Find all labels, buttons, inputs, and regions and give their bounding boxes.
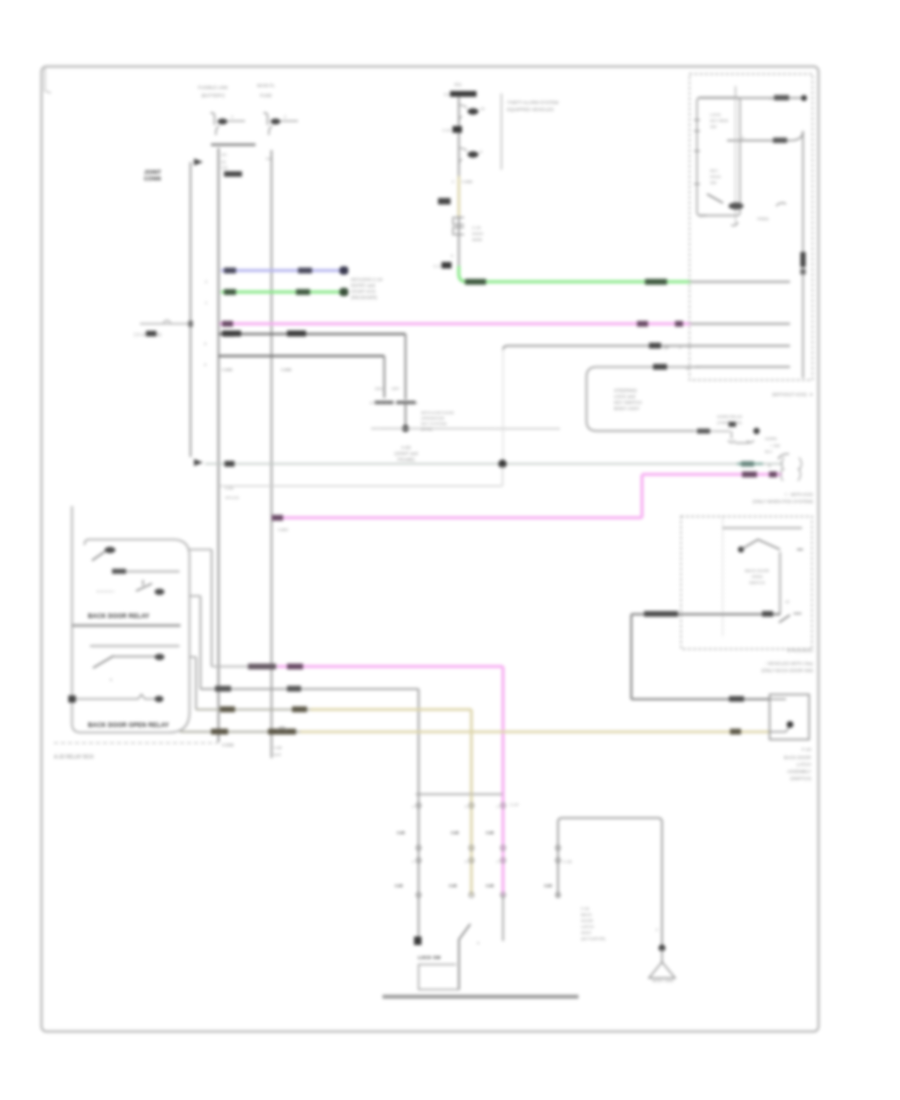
U1 inner box (key cylinder) [697, 98, 740, 216]
svg-text:16: 16 [480, 106, 485, 111]
dark wire W1 [204, 331, 406, 400]
bracket note line [500, 93, 502, 169]
svg-text:SW: SW [710, 124, 717, 129]
U1 inner box text block 2 [710, 168, 721, 185]
trunk E wire [271, 150, 273, 758]
svg-text:LATCH: LATCH [797, 762, 811, 767]
pink wire lower (y666.5) [212, 664, 503, 670]
green wire B labels [465, 279, 667, 285]
light wire across J2 [371, 428, 560, 430]
svg-text:0.5G: 0.5G [225, 486, 234, 491]
connector pin row 3 [412, 858, 505, 864]
svg-text:ENTRY and: ENTRY and [351, 283, 375, 288]
svg-text:: THEFT-ALARM SYSTEM: : THEFT-ALARM SYSTEM [505, 100, 559, 105]
relay K1 coil bar [112, 569, 180, 574]
wire column mid tan [470, 794, 473, 895]
dark patch near jog [729, 422, 737, 427]
U3 internals [770, 699, 790, 732]
svg-text:BACK DOOR OPEN RELAY: BACK DOOR OPEN RELAY [88, 723, 169, 729]
svg-text:OFF: OFF [392, 386, 401, 391]
svg-text:(1): (1) [221, 159, 227, 164]
relay K2 switch [93, 654, 165, 682]
svg-text:(BATTERY): (BATTERY) [201, 93, 225, 98]
svg-text:JOINT: JOINT [144, 170, 162, 176]
U3 label text [784, 747, 812, 781]
wire W7 (y614) [631, 611, 780, 617]
pink wire mid (y517.8) [272, 515, 643, 532]
U1 vertical wire code labels [800, 252, 805, 275]
svg-text:SWITCH: SWITCH [749, 580, 765, 585]
svg-text:(ACTUATOR): (ACTUATOR) [581, 936, 606, 941]
svg-text:FRAME): FRAME) [397, 457, 415, 462]
gray vertical (x418.6) [418, 689, 420, 795]
stub K2 contact out [190, 656, 197, 658]
svg-text:KEYLESS C-24: KEYLESS C-24 [351, 277, 383, 282]
svg-text:0.85B: 0.85B [222, 367, 233, 372]
fuse F2 header label [257, 83, 275, 98]
U2 wire row [723, 527, 802, 529]
svg-text:HORN: HORN [765, 436, 777, 441]
svg-text:6: 6 [465, 805, 467, 809]
svg-text:0.85B: 0.85B [281, 367, 292, 372]
svg-text:B-R: B-R [274, 752, 281, 757]
column unit box [587, 367, 701, 431]
relay box divider [72, 624, 181, 627]
stub K1 contact out [190, 549, 212, 551]
svg-text:OFF: OFF [699, 213, 708, 218]
trunk A bottom arrow [194, 459, 203, 466]
vertical wire V2 [200, 596, 202, 689]
svg-text:A-6X: A-6X [401, 445, 411, 450]
wire W3 (y346) [503, 343, 790, 350]
fuse F2 [264, 113, 299, 135]
wire code row 1 [397, 830, 495, 835]
bus bar [211, 143, 256, 146]
trunk A wire [190, 162, 192, 457]
svg-text:BODY ASSY: BODY ASSY [614, 406, 640, 411]
joint connector bold label [144, 170, 162, 183]
junction dot J4 [498, 460, 506, 468]
svg-text:TO: TO [444, 92, 449, 97]
text right of box lower [717, 414, 743, 425]
fuse F4 [459, 148, 483, 164]
connector pin row 4 [416, 893, 505, 898]
green wire B path [459, 266, 691, 282]
latch box U3 [770, 695, 810, 740]
connector C-105 stub [134, 320, 191, 337]
svg-text:FUSE: FUSE [260, 93, 272, 98]
U1 switch S2 [699, 98, 744, 226]
fuse F1 [211, 113, 246, 135]
junction at C-105 stub [188, 321, 193, 327]
svg-text:0.85: 0.85 [451, 830, 460, 835]
svg-text:A-30 RELAY BOX: A-30 RELAY BOX [54, 755, 94, 761]
U2 switch S3 [738, 540, 803, 553]
svg-text:F-09: F-09 [581, 906, 590, 911]
svg-text:0.85V: 0.85V [278, 527, 289, 532]
ignition feed wire tan segment [457, 176, 460, 216]
note text above latch box [761, 661, 813, 673]
junction dot J2 [402, 425, 409, 432]
U2 switch output wire [779, 552, 781, 614]
inline connector C1 [453, 218, 483, 243]
ignition feed wire [458, 97, 460, 269]
svg-text:BACK DOOR: BACK DOOR [784, 755, 812, 760]
note text right middle [753, 492, 814, 504]
J2 callout text [421, 410, 454, 432]
svg-text:0.85: 0.85 [397, 830, 406, 835]
wire code label row [452, 179, 473, 184]
pink vertical (x642) [641, 474, 644, 517]
green wire B inside box (gray) [691, 281, 790, 283]
svg-text:3-R: 3-R [221, 165, 228, 170]
svg-text:ETACS-ECU: ETACS-ECU [787, 648, 813, 653]
svg-text:LATCH: LATCH [581, 924, 594, 929]
svg-text:0.85: 0.85 [544, 883, 553, 888]
dark wire W2 [204, 356, 384, 398]
svg-text:4: 4 [412, 805, 414, 809]
green wire A [221, 289, 345, 295]
switch S4 [459, 924, 480, 990]
dashed continuation line [54, 742, 219, 744]
U1 inner box text block 1 [710, 112, 728, 129]
svg-text:ON1: ON1 [375, 386, 384, 391]
U1 small contact right [757, 203, 786, 221]
ground G1 [649, 948, 675, 983]
svg-text:ON(N): ON(N) [757, 216, 769, 221]
pink wire inside box (gray) [691, 323, 790, 325]
svg-text:ASSEMBLY: ASSEMBLY [787, 769, 811, 774]
connector C2 blob [434, 262, 452, 269]
light wire W5 (y431) [694, 430, 730, 432]
connector pin row 2 [416, 846, 505, 851]
stub K1 coil out [190, 595, 201, 597]
svg-text:BACK DOOR: BACK DOOR [745, 568, 769, 573]
svg-text:(ONLY WHEN POS SYSTEM): (ONLY WHEN POS SYSTEM) [753, 499, 814, 504]
U1 wire row 2 [727, 135, 790, 143]
svg-text:(ONLY BACK DOOR SW): (ONLY BACK DOOR SW) [761, 668, 813, 673]
U1 junction dot [801, 95, 807, 101]
wire code row 2 [395, 883, 495, 888]
BR junction dot [659, 945, 666, 952]
U1 wire row 1 [699, 86, 804, 101]
U2 text block [745, 568, 769, 585]
trunk A top arrow [194, 159, 203, 166]
svg-text:(RECEIVER): (RECEIVER) [351, 295, 378, 300]
S4 bracket [419, 965, 459, 990]
fuse F1 header label [198, 85, 228, 98]
svg-text:4: 4 [412, 860, 414, 864]
svg-text:BACK: BACK [581, 912, 592, 917]
blue wire end arrow [340, 266, 349, 274]
svg-text:LOCK SW: LOCK SW [418, 955, 441, 960]
bottom connector bar [416, 793, 503, 795]
svg-text:START SYS: START SYS [351, 289, 376, 294]
svg-text:C-3: C-3 [434, 264, 441, 269]
svg-text:2: 2 [497, 860, 499, 864]
svg-text:(WITHOUT KOS) ∗: (WITHOUT KOS) ∗ [772, 392, 813, 397]
svg-text:C-29: C-29 [472, 225, 481, 230]
svg-text:C-39: C-39 [563, 859, 572, 864]
svg-text:LOCK: LOCK [710, 112, 721, 117]
dark label L1 [438, 198, 451, 205]
svg-text:DASH: DASH [472, 231, 483, 236]
inline connector C5 (pink) [781, 468, 801, 481]
inline connector C4 (teal) [782, 458, 802, 471]
connector pin row 1 [412, 802, 519, 809]
wire column left gray [418, 794, 420, 937]
svg-text:WIRE: WIRE [472, 237, 483, 242]
tan vertical (x471.4) [470, 710, 473, 796]
svg-text:KEY REM: KEY REM [710, 118, 728, 123]
pink vertical (x503) [502, 667, 505, 796]
svg-text:ASSY: ASSY [581, 930, 592, 935]
U2 inner dotted vertical [722, 517, 724, 638]
light wire W6 (y486) [219, 466, 503, 500]
node label text [394, 445, 418, 462]
svg-text:MAIN FL: MAIN FL [257, 83, 275, 88]
terminal blob [414, 937, 422, 946]
svg-text:DOOR: DOOR [581, 918, 593, 923]
switch S1 pin labels [375, 386, 400, 391]
svg-text:OPERATION: OPERATION [421, 416, 444, 421]
svg-text:J/C: J/C [221, 152, 227, 157]
relay box outline [72, 506, 190, 733]
blue wire [221, 268, 345, 274]
BR pins [544, 846, 572, 898]
dashed box U2 (ETACS) [681, 517, 812, 650]
teal wire (y464) [205, 461, 783, 468]
svg-text:+ SW: + SW [770, 443, 780, 448]
svg-text:C-22: C-22 [442, 128, 451, 133]
wire column right gray tail [502, 895, 504, 941]
svg-text:SPLICE: SPLICE [225, 495, 240, 500]
svg-text:(SWITCH): (SWITCH) [790, 776, 811, 781]
svg-text:KEY SWITCH: KEY SWITCH [614, 400, 642, 405]
switch S1 contacts [370, 401, 419, 404]
svg-text:KEY: KEY [710, 168, 718, 173]
svg-text:G: G [768, 463, 771, 468]
hook contact [778, 454, 789, 459]
svg-text:0.85: 0.85 [274, 745, 283, 750]
green wire A end arrow [340, 288, 349, 296]
svg-text:OPEN: OPEN [751, 574, 762, 579]
relay K1 switch [92, 547, 116, 561]
svg-text:EQUIPPED VEHICLES: EQUIPPED VEHICLES [507, 107, 554, 112]
switch S1 output wire [405, 404, 407, 429]
svg-text:FUSIBLE LINK: FUSIBLE LINK [198, 85, 228, 90]
U3 junction dot [787, 721, 794, 728]
svg-text:BODY GND: BODY GND [652, 978, 673, 983]
svg-text:0.85: 0.85 [395, 883, 404, 888]
relay K2 coil bar [90, 645, 180, 647]
trunk B top wire code labels [221, 152, 242, 177]
ignition switch dark bar label [444, 91, 477, 97]
wire W8 (y699) [631, 696, 769, 702]
svg-text:SW: SW [710, 180, 717, 185]
svg-text:KEY SYSTEM: KEY SYSTEM [421, 421, 447, 426]
svg-text:2: 2 [497, 805, 499, 809]
svg-text:(JOINT and: (JOINT and [394, 451, 418, 456]
svg-text:0.85B: 0.85B [222, 743, 234, 748]
switch blade marks at W7 end [779, 614, 802, 623]
svg-text:BACK DOOR RELAY: BACK DOOR RELAY [88, 614, 149, 620]
frame inner tick [45, 68, 51, 93]
svg-text:RLY: RLY [765, 449, 773, 454]
trunk E tail label [274, 745, 283, 757]
svg-text:C-37: C-37 [510, 802, 519, 807]
svg-text:LOCK and: LOCK and [614, 394, 636, 399]
arrow callout text [351, 277, 383, 300]
U1 right vertical wire with hook [790, 131, 803, 141]
svg-text:IG1: IG1 [454, 82, 462, 87]
svg-text:5-B: 5-B [266, 156, 273, 161]
trunk B wire [217, 148, 219, 742]
wire W7 corner down [630, 614, 632, 699]
fuse F3 [459, 105, 485, 121]
junction J1 blob [442, 126, 462, 133]
faint vertical to junction [502, 349, 504, 462]
relay K1 contact [97, 580, 165, 595]
svg-text:HORN RELAY: HORN RELAY [717, 414, 743, 419]
column unit box text [614, 388, 642, 411]
svg-text:0.85B: 0.85B [462, 179, 473, 184]
pink wire upper (y474.4) [642, 472, 782, 478]
pink wire main [220, 321, 691, 338]
svg-text:6: 6 [465, 860, 467, 864]
svg-text:WITH A KEYLESS: WITH A KEYLESS [421, 410, 454, 415]
page frame [42, 67, 819, 1032]
svg-text:: VEHICLES WITH i-key: : VEHICLES WITH i-key [765, 661, 814, 666]
svg-text:+ : WITH KOS: + : WITH KOS [784, 492, 813, 497]
bottom right circuit wire [558, 818, 662, 948]
wire W4 (y367 along box top) [653, 364, 790, 371]
svg-text:HOLE: HOLE [710, 174, 721, 179]
U1 inner box pin ticks [694, 120, 700, 184]
relay K2 coil element [68, 695, 163, 703]
inline connector C3 [728, 431, 754, 443]
svg-text:0.85: 0.85 [486, 830, 495, 835]
svg-text:0.85: 0.85 [449, 883, 458, 888]
svg-text:0.85: 0.85 [486, 883, 495, 888]
gray wire lower (y689) [201, 686, 419, 692]
switch cluster text [765, 436, 780, 454]
svg-text:STEERING: STEERING [614, 388, 638, 393]
bracket note text [505, 100, 559, 112]
BR text block [581, 906, 606, 941]
svg-text:(KOS): (KOS) [421, 427, 433, 432]
svg-text:12: 12 [785, 599, 790, 604]
dashed box U1 (theft-alarm ECU) [690, 74, 813, 380]
svg-text:F-10: F-10 [802, 747, 812, 752]
tan wire lower (y709.5) [196, 706, 471, 712]
vertical wire V3 [195, 657, 197, 710]
ground bar [383, 995, 579, 999]
svg-text:GR: GR [663, 345, 669, 350]
svg-text:CONN: CONN [144, 177, 161, 183]
junction dot J3 [753, 428, 759, 434]
tan wire long (y732) [180, 727, 770, 735]
wire column right pink [502, 794, 505, 895]
vertical wire V1 [211, 550, 213, 667]
